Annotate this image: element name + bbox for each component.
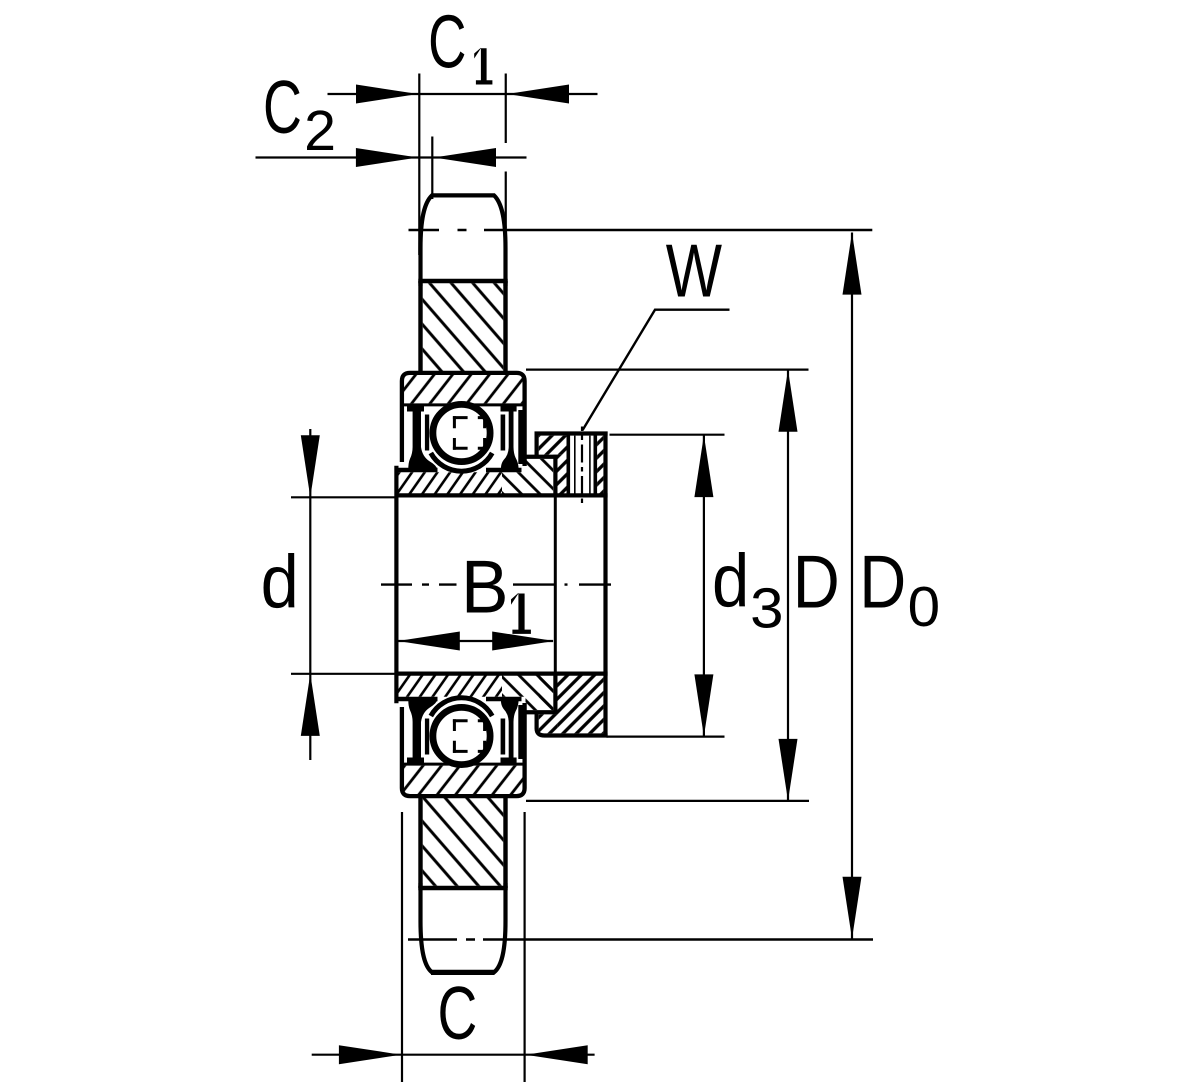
slot centerline W top [581,427,583,506]
svg-text:W: W [666,229,722,313]
seal left bottom [407,758,424,766]
dimension C bottom [312,812,595,1082]
svg-text:2: 2 [304,99,336,162]
sprocket tooth root line bottom [418,886,507,890]
svg-text:C: C [438,971,478,1055]
ball top [433,404,490,461]
seal right top [501,404,517,412]
dimension C2 [256,137,527,200]
inner ring extension sleeve bottom [502,675,553,710]
svg-text:D: D [793,539,840,623]
ball bottom [433,707,490,764]
outer ring bottom [402,703,525,796]
svg-text:d: d [261,540,299,624]
sprocket rim top [423,283,504,371]
svg-text:C: C [428,0,466,84]
svg-text:D: D [859,540,906,624]
pitch line top [409,229,873,232]
dimension d3 [607,435,725,737]
inner ring left face [394,466,398,704]
sprocket tooth root line top [418,279,507,283]
inner ring bottom [396,697,522,701]
seal right bottom [501,758,517,766]
dimension D [526,370,809,802]
svg-text:C: C [263,65,302,149]
bore top edge [395,493,607,497]
dimension B1 [399,498,556,673]
svg-text:0: 0 [908,575,941,638]
main centerline [381,583,611,585]
ball center marks top [453,416,486,450]
locking collar top [535,431,608,435]
inner ring extension sleeve top [502,459,553,494]
bore bottom edge [395,671,607,675]
outer ring top [402,373,525,466]
svg-text:B: B [461,545,509,629]
dimension d [291,429,395,760]
leader W [583,310,730,431]
ball center marks bottom [453,719,486,753]
svg-text:3: 3 [750,577,783,640]
sprocket rim bottom [423,798,504,886]
pitch line bottom [408,938,873,941]
sprocket tooth top [421,195,506,286]
dimension C1 [328,74,598,256]
collar right face [603,432,607,738]
dimension D0 [851,233,853,940]
seal left top [407,404,424,412]
sprocket tooth bottom [421,883,506,972]
inner ring top [396,468,522,472]
svg-text:d: d [712,538,749,622]
locking collar bottom [537,712,608,736]
